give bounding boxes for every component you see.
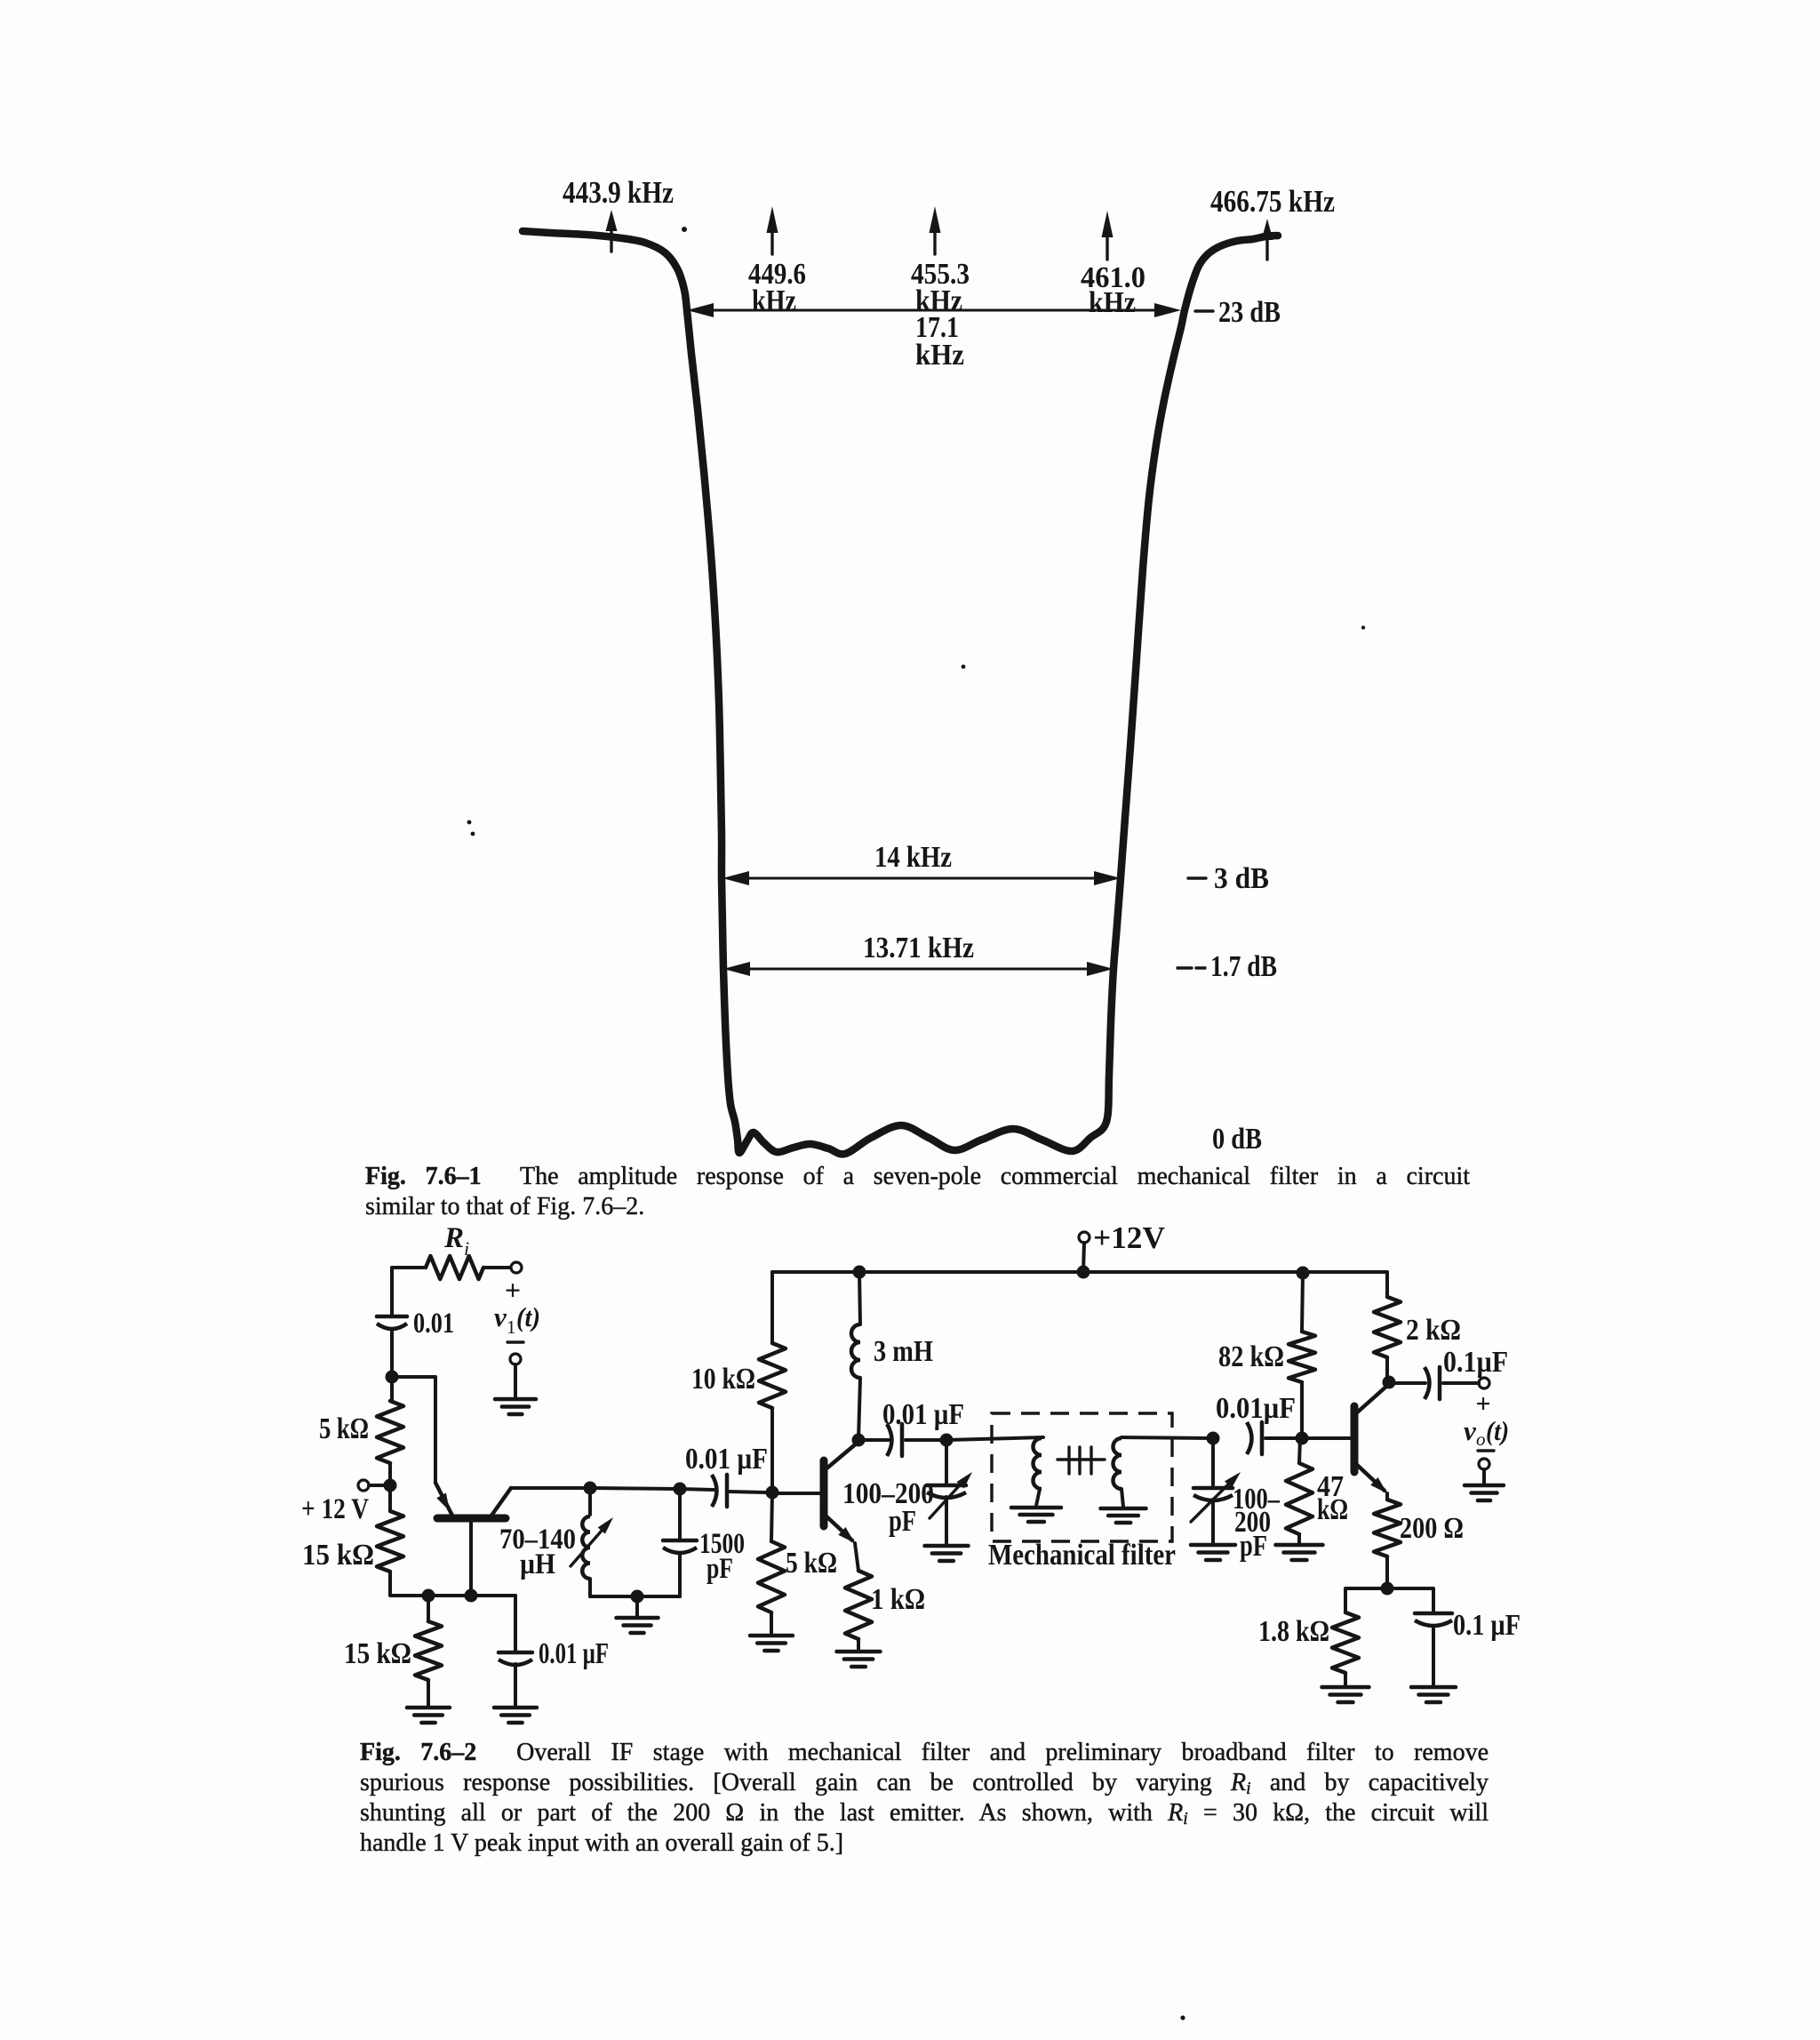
wire +12V supply stub [1083, 1243, 1084, 1272]
label 0.01 [413, 1308, 454, 1340]
terminal v1 minus [510, 1354, 521, 1364]
wire 82k to node D [1300, 1382, 1304, 1438]
label vo(t) [1464, 1415, 1509, 1450]
caption Fig. 7.6-2 [360, 1738, 1489, 1859]
width arrow 14 kHz at -3 dB [722, 871, 1121, 885]
label 1500 [699, 1528, 745, 1560]
wire tank top to coil [588, 1488, 592, 1515]
wire 47k to ground [1297, 1534, 1301, 1544]
width arrow 13.71 kHz at -1.7 dB [723, 962, 1114, 976]
label 0.01 uF series2 [882, 1398, 964, 1431]
svg-text:0.01 µF: 0.01 µF [685, 1443, 768, 1476]
capacitor 0.01 input [377, 1316, 407, 1329]
ground under var1 [925, 1546, 969, 1561]
svg-text:5 kΩ: 5 kΩ [319, 1412, 369, 1445]
svg-text:0.1 µF: 0.1 µF [1453, 1609, 1521, 1642]
wire 3mH to collector [858, 1378, 860, 1440]
junction rail supply [1077, 1266, 1090, 1279]
svg-text:15 kΩ: 15 kΩ [302, 1539, 374, 1572]
wire 1500pF to tank bottom [678, 1553, 682, 1596]
capacitor 100-200 pF variable 2 [1191, 1472, 1241, 1522]
label vo minus [1478, 1449, 1494, 1452]
ground under 5k mid [750, 1636, 793, 1651]
wire node A down [390, 1377, 394, 1401]
label 1.8 kOhm [1258, 1615, 1329, 1648]
wire 15k to bottom rail [390, 1572, 515, 1596]
junction node A [386, 1371, 399, 1384]
junction Q3 collector [1383, 1376, 1396, 1389]
capacitor 0.1uF output [1425, 1367, 1440, 1399]
wire 2k to Q3 collector [1385, 1357, 1389, 1382]
wire tank bottom rail [590, 1595, 680, 1598]
scan speck [1361, 626, 1365, 629]
wire Q2 emitter to 1k [855, 1543, 858, 1571]
svg-text:pF: pF [706, 1553, 733, 1585]
label 3 mH [874, 1335, 933, 1368]
svg-text:(t): (t) [516, 1301, 540, 1332]
inductor 70-140 uH variable [571, 1516, 613, 1579]
label 0.1uF out [1443, 1346, 1508, 1379]
label 47 [1317, 1470, 1344, 1503]
capacitor 100-200 pF variable 1 [927, 1472, 972, 1518]
caption Fig. 7.6-1 [365, 1162, 1470, 1222]
svg-text:0.01 µF: 0.01 µF [882, 1398, 964, 1431]
resistor 1k [845, 1571, 872, 1639]
resistor 200 ohm [1374, 1500, 1401, 1556]
svg-text:3 mH: 3 mH [874, 1335, 933, 1368]
terminal +12V supply [1079, 1232, 1090, 1243]
label pF var2 [1240, 1530, 1267, 1563]
wire +12V stub [369, 1484, 384, 1487]
svg-text:v: v [1464, 1415, 1477, 1446]
terminal v1 plus [511, 1262, 522, 1273]
junction Q2 base node [766, 1486, 779, 1500]
junction Q2 collector [852, 1434, 866, 1447]
svg-text:0.01 µF: 0.01 µF [539, 1637, 609, 1670]
label 70-140 [499, 1524, 576, 1556]
junction node C [1207, 1432, 1220, 1445]
wire Q2 collector to cap [858, 1438, 889, 1442]
label v1(t) [494, 1301, 540, 1338]
label +12V [1093, 1220, 1165, 1255]
wire v1 minus to ground [514, 1364, 517, 1397]
wire vo minus to ground [1482, 1469, 1486, 1484]
scan speck [962, 665, 966, 669]
wire 15k lower to ground [427, 1680, 430, 1708]
wire bypass cap to ground [514, 1664, 517, 1708]
junction node D [1296, 1432, 1309, 1445]
wire node C down [1211, 1438, 1215, 1485]
svg-text:kHz: kHz [1089, 286, 1136, 319]
label pF var1 [889, 1505, 916, 1538]
wire node D to Q3 [1302, 1436, 1351, 1440]
resistor 15k upper [377, 1511, 403, 1572]
label 461.0 kHz [1081, 261, 1145, 319]
marker arrow 449.6 kHz [767, 206, 778, 254]
scan speck [467, 820, 475, 836]
wire rail to 82k [1302, 1273, 1303, 1332]
ground under 1.8k [1322, 1687, 1369, 1702]
ground at v1 [495, 1399, 536, 1414]
wire Q3 emitter to 200 [1385, 1493, 1389, 1500]
capacitor 1500 pF [663, 1540, 697, 1553]
label 0.1 uF emitter [1453, 1609, 1521, 1642]
label pF 1500 [706, 1553, 733, 1585]
label 17.1 kHz [915, 311, 964, 372]
wire rail corner to 2k [1386, 1272, 1388, 1297]
wire filter to node C [1122, 1437, 1213, 1438]
junction bottom rail base [465, 1589, 478, 1603]
svg-text:82 kΩ: 82 kΩ [1218, 1340, 1284, 1373]
svg-text:0.1µF: 0.1µF [1443, 1346, 1508, 1379]
mechanical coupling rods [1058, 1447, 1105, 1474]
svg-text:0 dB: 0 dB [1212, 1123, 1262, 1156]
wire cap to divider node [729, 1492, 766, 1492]
capacitor 0.01uF series 2 [887, 1424, 902, 1456]
ground under tank [617, 1618, 659, 1633]
wire base node to Q2 [772, 1492, 819, 1495]
svg-text:1.8 kΩ: 1.8 kΩ [1258, 1615, 1329, 1648]
svg-text:10 kΩ: 10 kΩ [691, 1363, 755, 1396]
wire node B down [945, 1440, 948, 1483]
label 0.01uF series3 [1216, 1392, 1296, 1425]
label -23 dB [1195, 296, 1281, 329]
wire rail to 10k [770, 1272, 774, 1343]
wire to 1500pF [678, 1489, 682, 1540]
label 100- var2 [1233, 1483, 1281, 1516]
label 15 kOhm lower [344, 1637, 411, 1670]
wire 1k to ground [857, 1639, 860, 1652]
label 1 kOhm [871, 1583, 925, 1616]
junction rail 3mH [853, 1266, 866, 1279]
wire var2 to ground [1211, 1500, 1215, 1544]
svg-text:2 kΩ: 2 kΩ [1406, 1314, 1461, 1347]
wire node E to 0.1uF [1387, 1588, 1433, 1613]
junction rail 82k [1297, 1267, 1310, 1280]
svg-text:443.9 kHz: 443.9 kHz [563, 175, 674, 210]
terminal vo plus [1479, 1378, 1489, 1388]
resistor 5k mid [758, 1541, 785, 1612]
wire filter output coil stub [1122, 1489, 1123, 1507]
resistor 82k [1289, 1332, 1315, 1382]
svg-text:+12V: +12V [1093, 1220, 1165, 1255]
resistor 47k [1286, 1463, 1313, 1534]
label -3 dB [1188, 862, 1269, 895]
inductor filter output coil [1114, 1438, 1122, 1489]
capacitor 0.01uF base bypass [499, 1652, 532, 1665]
wire 10k to base node [770, 1408, 774, 1492]
svg-text:1 kΩ: 1 kΩ [871, 1583, 925, 1616]
scan speck [682, 227, 687, 232]
svg-text:o: o [1476, 1428, 1486, 1450]
label 15 kOhm upper [302, 1539, 374, 1572]
svg-text:1.7 dB: 1.7 dB [1210, 950, 1277, 983]
junction tank ground [631, 1590, 644, 1604]
wire rail to 3mH [859, 1272, 860, 1324]
scan speck [1180, 2015, 1185, 2020]
wire filter input coil stub [1036, 1489, 1040, 1506]
svg-text:kHz: kHz [752, 284, 796, 317]
svg-text:µH: µH [520, 1548, 555, 1580]
label 0.01 uF series1 [685, 1443, 768, 1476]
label 10 kOhm [691, 1363, 755, 1396]
capacitor 0.01uF series 3 [1247, 1422, 1262, 1454]
label 449.6 kHz [748, 258, 806, 317]
ground at vo [1465, 1485, 1504, 1500]
label 2 kOhm [1406, 1314, 1461, 1347]
svg-text:1: 1 [507, 1316, 516, 1338]
resistor 1.8k [1332, 1612, 1359, 1673]
capacitor 0.01uF series 1 [712, 1475, 727, 1507]
label plus v1 [505, 1274, 521, 1306]
wire to 15k lower [427, 1596, 430, 1621]
label 443.9 kHz [563, 175, 674, 210]
label uH [520, 1548, 555, 1580]
width arrow 17.1 kHz at -23 dB [687, 303, 1181, 317]
mechanical filter dashed box [992, 1413, 1172, 1541]
label plus vo [1475, 1389, 1490, 1419]
ground under bypass cap [494, 1708, 537, 1723]
marker arrow 461.0 kHz [1102, 211, 1114, 260]
label 5 kOhm mid [786, 1547, 837, 1580]
terminal +12V left [358, 1480, 369, 1491]
ground under var2 [1191, 1545, 1235, 1560]
svg-text:i: i [464, 1237, 469, 1260]
svg-text:466.75 kHz: 466.75 kHz [1210, 184, 1335, 219]
ground under 0.1uF [1411, 1687, 1456, 1702]
wire 200 to node E [1385, 1556, 1389, 1588]
svg-text:0.01: 0.01 [413, 1308, 454, 1340]
wire input rail top [390, 1268, 394, 1316]
terminal vo minus [1479, 1459, 1489, 1469]
label 200 Ohm [1400, 1512, 1464, 1545]
label +12 V [301, 1493, 369, 1525]
wire base node to 5k [771, 1492, 772, 1541]
wire out cap to terminal [1443, 1381, 1479, 1385]
svg-text:+ 12 V: + 12 V [301, 1493, 369, 1525]
wire Q1 collector run [511, 1488, 714, 1490]
ground filter input [1011, 1508, 1061, 1522]
label 0 dB [1212, 1123, 1262, 1156]
label 5 kOhm left [319, 1412, 369, 1445]
wire node D to 47k [1299, 1438, 1300, 1463]
wire Ri left lead [392, 1266, 426, 1269]
wire var1 to ground [945, 1497, 948, 1545]
resistor 2k [1374, 1297, 1401, 1357]
wire +12V rail [772, 1272, 1387, 1297]
ground under 15k lower [407, 1708, 450, 1723]
wire 0.1uF to ground [1432, 1626, 1435, 1687]
wire 5k mid to ground [770, 1612, 773, 1636]
svg-text:23 dB: 23 dB [1218, 296, 1281, 329]
svg-text:kHz: kHz [915, 339, 964, 372]
label 0.01 uF bypass [539, 1637, 609, 1670]
resistor 15k lower [415, 1621, 442, 1680]
label 13.71 kHz [863, 932, 974, 964]
junction node B [940, 1434, 954, 1447]
filter amplitude response curve (Fig. 7.6-1) [523, 231, 1278, 1154]
ground filter output [1101, 1508, 1146, 1523]
label Ri [443, 1222, 469, 1260]
marker arrow 466.75 kHz [1262, 219, 1273, 260]
ground under 47k [1276, 1545, 1323, 1560]
label Mechanical filter [988, 1539, 1176, 1572]
transistor Q1 [435, 1483, 511, 1596]
wire coil to tank bottom [588, 1579, 592, 1596]
svg-text:14 kHz: 14 kHz [874, 841, 952, 874]
marker arrow 443.9 kHz [606, 210, 618, 252]
wire cap2 to node B [906, 1438, 946, 1442]
junction node E [1381, 1582, 1394, 1596]
label v1 minus [507, 1340, 523, 1343]
svg-text:Mechanical filter: Mechanical filter [988, 1539, 1176, 1572]
wire tank ground stub [635, 1596, 639, 1616]
wire +12V node down [388, 1485, 392, 1511]
label 200 var2 [1234, 1506, 1271, 1539]
svg-text:v: v [494, 1301, 507, 1332]
label kOhm 47 [1317, 1493, 1348, 1526]
svg-text:15 kΩ: 15 kΩ [344, 1637, 411, 1670]
junction 1500pF top [674, 1483, 687, 1496]
label -1.7 dB [1177, 950, 1277, 983]
wire collector to out cap [1389, 1381, 1425, 1385]
wire node B to filter [946, 1437, 1043, 1440]
inductor filter input coil [1034, 1438, 1042, 1489]
marker arrow 455.3 kHz [930, 206, 941, 254]
ground under 1k [837, 1652, 881, 1667]
svg-text:200 Ω: 200 Ω [1400, 1512, 1464, 1545]
resistor 5k left [377, 1401, 403, 1463]
label 455.3 kHz [911, 258, 970, 317]
label 14 kHz [874, 841, 952, 874]
junction +12V left node [384, 1479, 397, 1492]
svg-text:pF: pF [889, 1505, 916, 1538]
transistor Q2 [824, 1442, 858, 1543]
transistor Q3 [1354, 1385, 1388, 1493]
wire node E to 1.8k [1345, 1588, 1387, 1612]
svg-text:(t): (t) [1486, 1415, 1509, 1446]
inductor 3 mH [851, 1324, 860, 1378]
svg-text:3 dB: 3 dB [1214, 862, 1269, 895]
wire bottom rail to cap [514, 1596, 517, 1652]
svg-text:kΩ: kΩ [1317, 1493, 1348, 1526]
wire 5k to +12V node [388, 1463, 392, 1485]
wire cap to node A [390, 1329, 394, 1377]
svg-text:13.71 kHz: 13.71 kHz [863, 932, 974, 964]
wire Ri right lead [483, 1266, 510, 1269]
wire cap3 to node D [1265, 1436, 1302, 1440]
svg-text:5 kΩ: 5 kΩ [786, 1547, 837, 1580]
svg-text:pF: pF [1240, 1530, 1267, 1563]
wire node A to Q1 emitter [392, 1377, 435, 1483]
resistor Ri [426, 1256, 483, 1279]
label 82 kOhm [1218, 1340, 1284, 1373]
wire 1.8k to ground [1344, 1673, 1347, 1687]
label 100-200 [842, 1477, 934, 1510]
resistor 10k [759, 1343, 786, 1408]
svg-text:0.01µF: 0.01µF [1216, 1392, 1296, 1425]
junction tank top [584, 1482, 597, 1495]
label 466.75 kHz [1210, 184, 1335, 219]
svg-text:R: R [443, 1222, 464, 1254]
junction bottom rail left [422, 1589, 435, 1603]
capacitor 0.1uF emitter [1415, 1613, 1452, 1626]
